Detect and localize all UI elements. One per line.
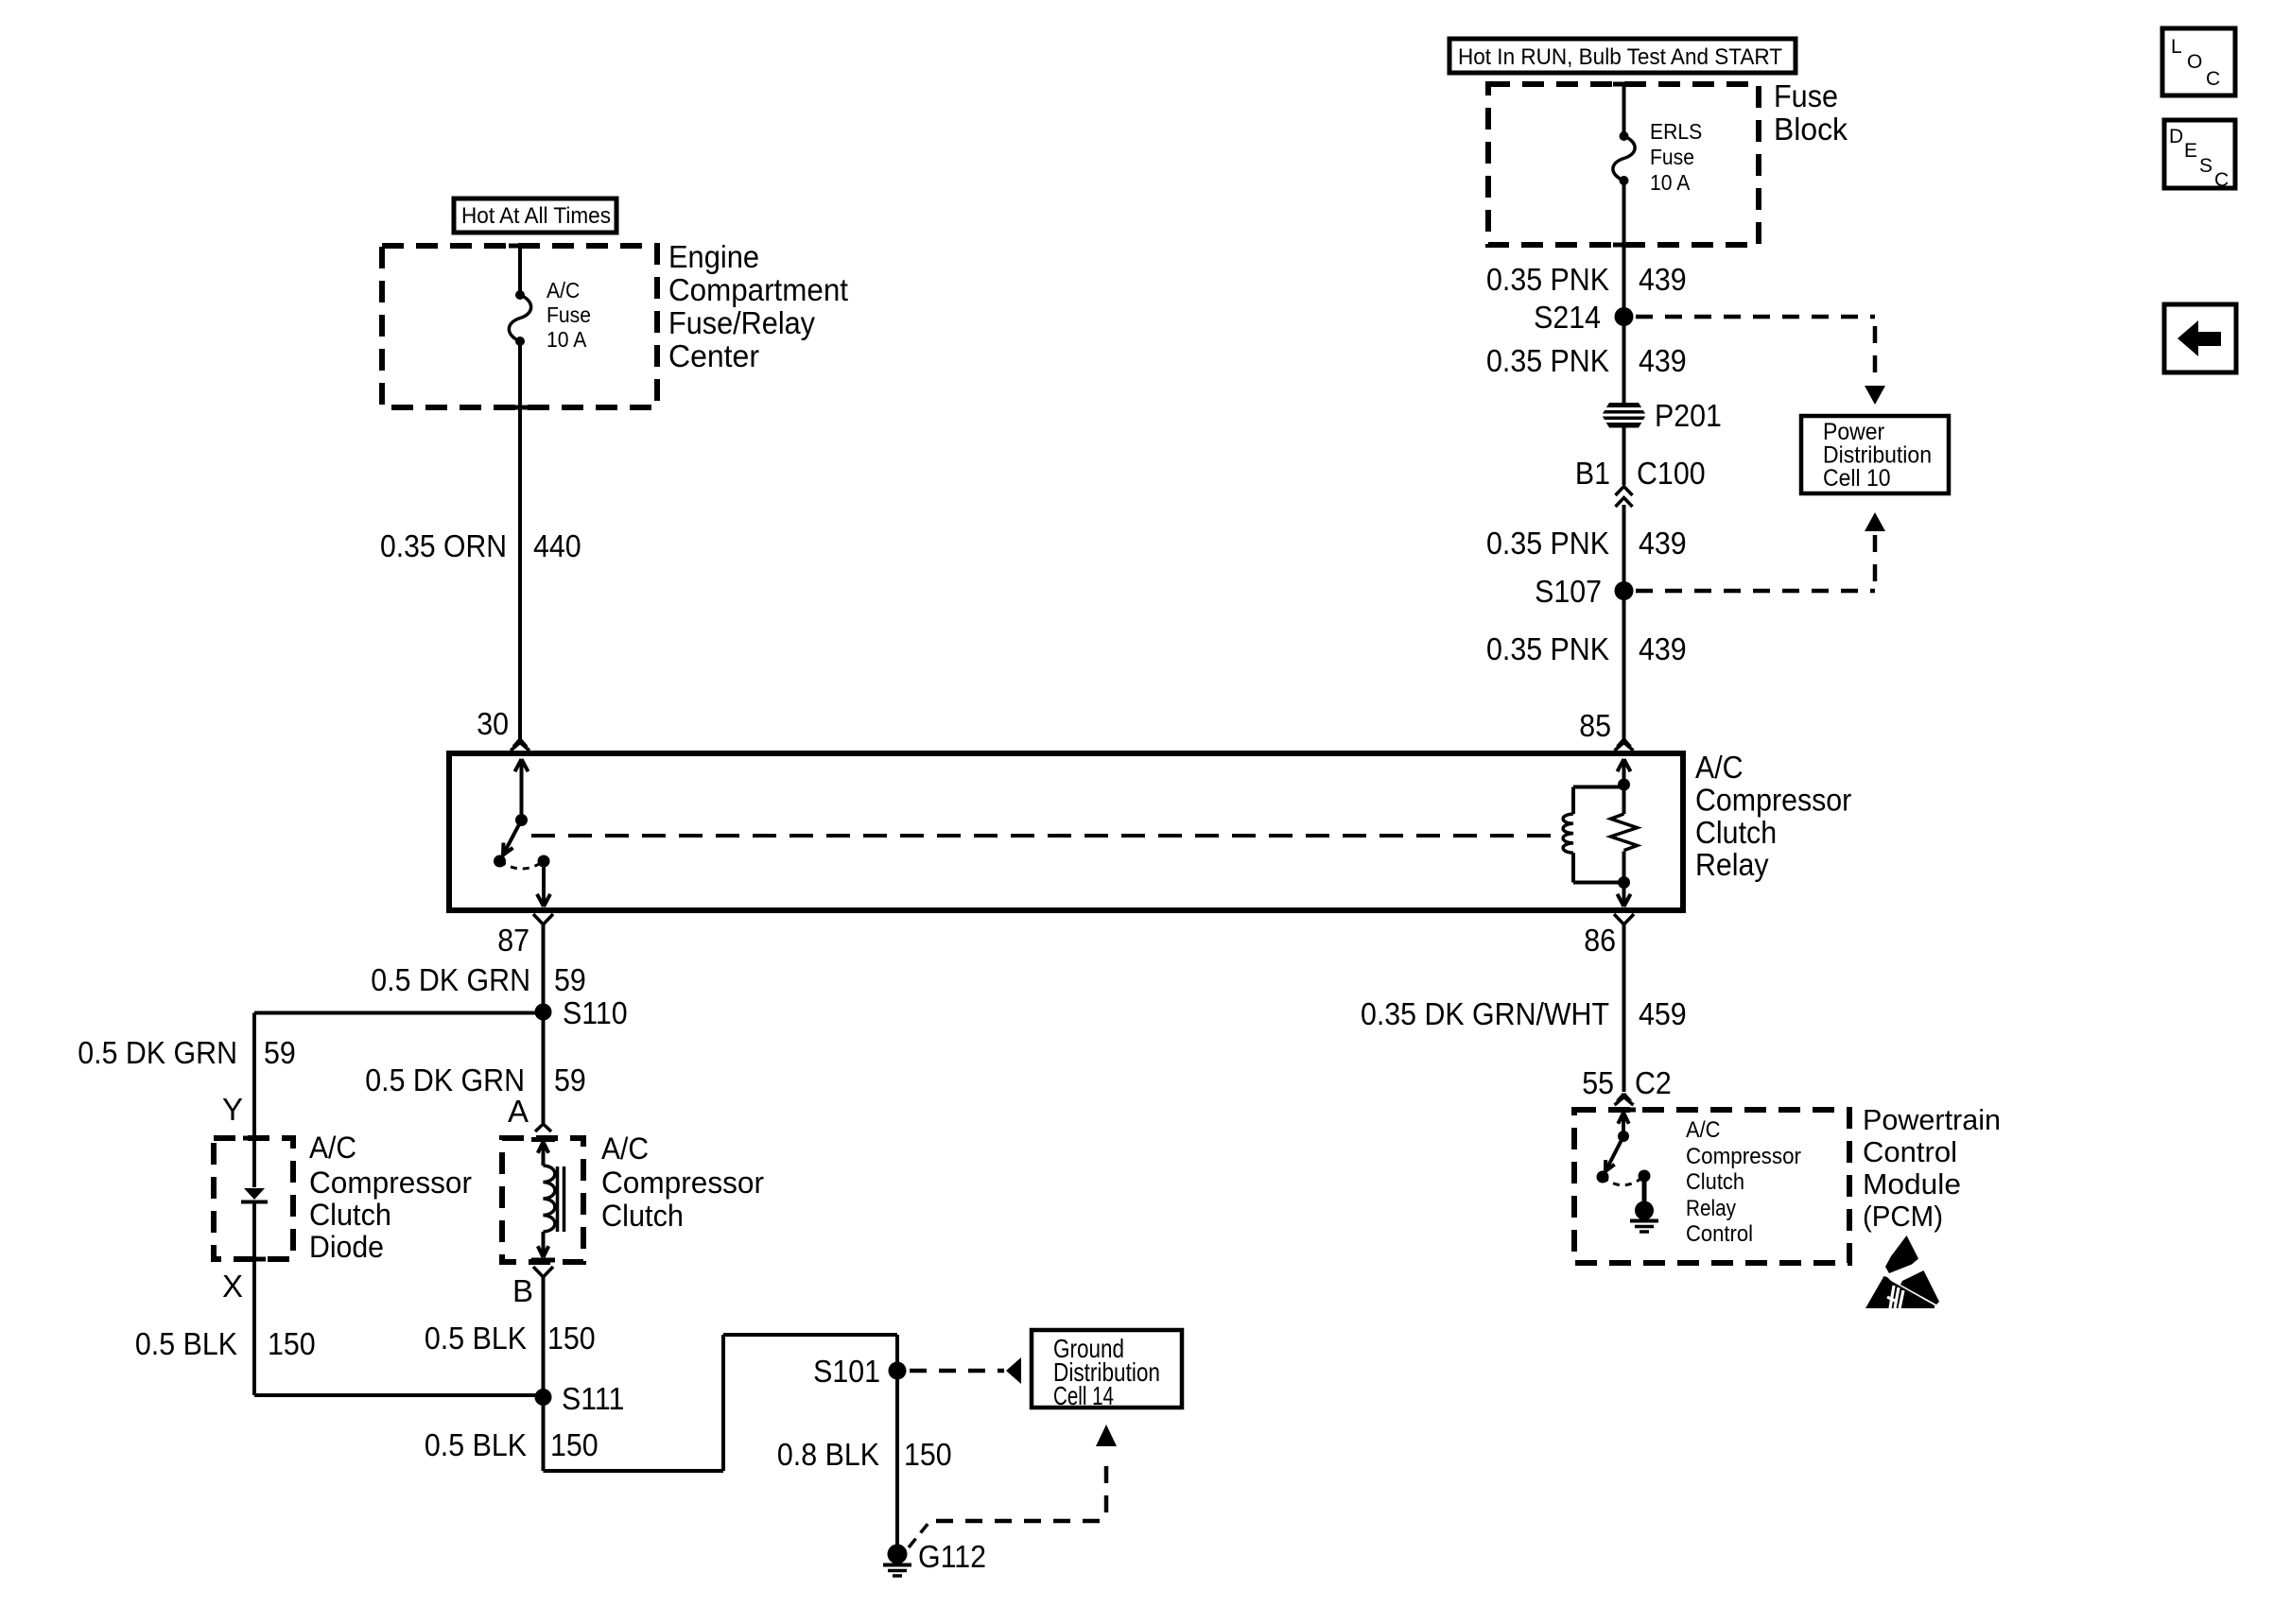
svg-text:Clutch: Clutch bbox=[1695, 815, 1777, 850]
svg-text:0.35 PNK: 0.35 PNK bbox=[1486, 343, 1609, 378]
svg-text:Compressor: Compressor bbox=[1695, 782, 1851, 817]
svg-text:ERLS: ERLS bbox=[1650, 119, 1702, 144]
svg-text:Powertrain: Powertrain bbox=[1863, 1104, 2001, 1136]
svg-text:Diode: Diode bbox=[309, 1230, 384, 1264]
svg-text:439: 439 bbox=[1639, 526, 1687, 561]
svg-text:150: 150 bbox=[904, 1437, 952, 1472]
svg-text:Fuse: Fuse bbox=[1774, 78, 1838, 113]
svg-text:Cell 10: Cell 10 bbox=[1823, 465, 1891, 492]
svg-text:439: 439 bbox=[1639, 262, 1687, 297]
svg-text:0.5 BLK: 0.5 BLK bbox=[425, 1321, 527, 1356]
svg-text:Cell 14: Cell 14 bbox=[1053, 1381, 1114, 1410]
svg-text:Clutch: Clutch bbox=[309, 1198, 391, 1232]
svg-text:55: 55 bbox=[1582, 1065, 1614, 1100]
svg-text:G112: G112 bbox=[918, 1539, 986, 1574]
svg-text:Hot In RUN, Bulb Test And STAR: Hot In RUN, Bulb Test And START bbox=[1458, 44, 1782, 70]
svg-text:C: C bbox=[2214, 169, 2229, 191]
svg-text:A/C: A/C bbox=[1695, 750, 1744, 785]
svg-text:S110: S110 bbox=[563, 995, 628, 1030]
svg-text:B1: B1 bbox=[1575, 456, 1610, 491]
svg-text:0.35 PNK: 0.35 PNK bbox=[1486, 262, 1609, 297]
svg-text:Relay: Relay bbox=[1686, 1196, 1737, 1221]
svg-text:Clutch: Clutch bbox=[1686, 1169, 1744, 1195]
svg-text:150: 150 bbox=[268, 1326, 316, 1361]
svg-text:S: S bbox=[2199, 155, 2212, 177]
svg-text:0.35 PNK: 0.35 PNK bbox=[1486, 526, 1609, 561]
svg-text:87: 87 bbox=[497, 923, 529, 958]
svg-text:O: O bbox=[2187, 51, 2202, 73]
svg-text:150: 150 bbox=[550, 1427, 599, 1462]
svg-text:Control: Control bbox=[1863, 1136, 1957, 1168]
svg-text:C: C bbox=[2206, 68, 2220, 90]
svg-text:B: B bbox=[512, 1273, 533, 1308]
svg-text:Compartment: Compartment bbox=[668, 272, 848, 307]
svg-text:Center: Center bbox=[668, 338, 759, 373]
svg-text:S214: S214 bbox=[1534, 300, 1601, 335]
svg-text:Fuse: Fuse bbox=[1650, 145, 1694, 169]
svg-text:Hot At All Times: Hot At All Times bbox=[461, 203, 611, 229]
svg-text:C100: C100 bbox=[1637, 456, 1706, 491]
svg-text:(PCM): (PCM) bbox=[1863, 1201, 1943, 1233]
svg-text:S111: S111 bbox=[562, 1381, 624, 1416]
svg-text:10 A: 10 A bbox=[547, 327, 587, 352]
svg-text:S107: S107 bbox=[1535, 574, 1602, 609]
svg-text:A/C: A/C bbox=[601, 1132, 649, 1166]
svg-text:440: 440 bbox=[533, 528, 581, 563]
svg-text:0.8 BLK: 0.8 BLK bbox=[777, 1437, 879, 1472]
svg-text:E: E bbox=[2184, 140, 2197, 162]
svg-text:Relay: Relay bbox=[1695, 847, 1769, 882]
svg-text:439: 439 bbox=[1639, 343, 1687, 378]
svg-text:C2: C2 bbox=[1635, 1065, 1672, 1100]
svg-text:X: X bbox=[222, 1269, 243, 1304]
svg-text:P201: P201 bbox=[1655, 398, 1722, 433]
svg-text:L: L bbox=[2171, 36, 2182, 58]
svg-text:A/C: A/C bbox=[547, 278, 580, 302]
svg-text:Compressor: Compressor bbox=[1686, 1144, 1801, 1169]
svg-text:439: 439 bbox=[1639, 631, 1687, 666]
svg-text:Control: Control bbox=[1686, 1221, 1753, 1247]
svg-text:Module: Module bbox=[1863, 1168, 1961, 1201]
svg-text:Clutch: Clutch bbox=[601, 1199, 684, 1233]
svg-text:D: D bbox=[2169, 126, 2183, 147]
svg-text:0.5 BLK: 0.5 BLK bbox=[135, 1326, 237, 1361]
svg-text:10 A: 10 A bbox=[1650, 170, 1691, 195]
svg-text:59: 59 bbox=[264, 1035, 296, 1070]
svg-text:59: 59 bbox=[554, 1063, 586, 1097]
svg-text:86: 86 bbox=[1584, 923, 1616, 958]
svg-text:150: 150 bbox=[547, 1321, 596, 1356]
svg-text:85: 85 bbox=[1579, 708, 1611, 743]
svg-text:0.5 DK GRN: 0.5 DK GRN bbox=[78, 1035, 237, 1070]
svg-text:59: 59 bbox=[554, 962, 586, 997]
svg-text:30: 30 bbox=[477, 706, 509, 741]
svg-text:Fuse/Relay: Fuse/Relay bbox=[668, 305, 815, 340]
svg-text:A/C: A/C bbox=[1686, 1117, 1721, 1143]
svg-text:Fuse: Fuse bbox=[547, 302, 591, 327]
svg-text:A/C: A/C bbox=[309, 1131, 356, 1165]
svg-text:Engine: Engine bbox=[668, 239, 759, 274]
svg-text:Compressor: Compressor bbox=[309, 1166, 472, 1200]
svg-text:0.35 ORN: 0.35 ORN bbox=[380, 528, 507, 563]
svg-text:Compressor: Compressor bbox=[601, 1166, 764, 1200]
svg-text:0.5 BLK: 0.5 BLK bbox=[425, 1427, 527, 1462]
svg-text:A: A bbox=[508, 1094, 529, 1129]
svg-text:Y: Y bbox=[222, 1092, 243, 1127]
svg-text:0.35 PNK: 0.35 PNK bbox=[1486, 631, 1609, 666]
svg-text:0.5 DK GRN: 0.5 DK GRN bbox=[371, 962, 530, 997]
svg-text:459: 459 bbox=[1639, 996, 1687, 1031]
svg-text:Block: Block bbox=[1774, 112, 1848, 147]
svg-text:S101: S101 bbox=[813, 1354, 880, 1389]
svg-text:0.5 DK GRN: 0.5 DK GRN bbox=[365, 1063, 525, 1097]
svg-text:0.35 DK GRN/WHT: 0.35 DK GRN/WHT bbox=[1361, 996, 1609, 1031]
